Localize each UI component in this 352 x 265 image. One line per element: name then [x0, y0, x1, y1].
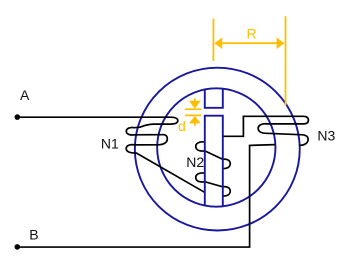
- svg-text:A: A: [20, 87, 30, 103]
- terminal B dot: [14, 244, 20, 250]
- coil N2 upper turn (left cap, diagonal, right cap): [196, 142, 230, 169]
- svg-text:d: d: [178, 118, 186, 134]
- core central bottom limb: [205, 116, 223, 207]
- svg-text:N3: N3: [317, 128, 335, 144]
- dimension R right arrowhead: [277, 37, 285, 49]
- dimension d bottom extension line: [185, 114, 201, 116]
- dimension R left extension line: [212, 19, 214, 62]
- svg-text:N2: N2: [186, 154, 204, 170]
- wire A to N1 and coil N1: [19, 117, 205, 192]
- dimension d upper arrowhead with stem: [194, 98, 196, 100]
- wire N3 end to B: [19, 145, 275, 247]
- step wire from N2 top to N3 and coil N3: [223, 116, 309, 145]
- coil N2 lower turn (left cap, diagonal, right cap): [196, 173, 230, 196]
- dimension R left arrowhead: [214, 37, 222, 49]
- dimension d top extension line: [185, 108, 201, 110]
- core central top limb: [205, 89, 223, 108]
- dimension R arrow shaft: [221, 42, 279, 44]
- dimension R right extension line: [285, 16, 287, 105]
- dimension d lower arrowhead with stem: [189, 116, 201, 123]
- svg-text:R: R: [247, 25, 257, 41]
- toroidal core outer circle: [135, 68, 300, 231]
- terminal A dot: [14, 114, 20, 120]
- svg-text:N1: N1: [101, 136, 119, 152]
- toroidal core inner circle: [157, 88, 275, 206]
- svg-text:B: B: [29, 226, 38, 242]
